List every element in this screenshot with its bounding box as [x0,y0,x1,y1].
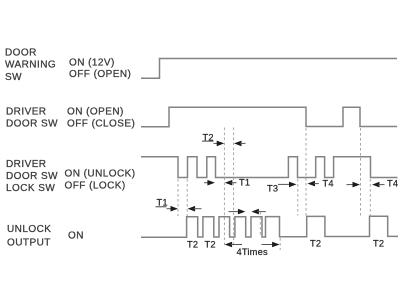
dashed guide line at x=187 [186,179,188,216]
dashed guide line at x=224.4 [223,128,225,248]
svg-text:ON (12V): ON (12V) [69,58,115,69]
row 2 label DRIVER DOOR SW [6,107,58,130]
svg-text:T4: T4 [387,179,398,189]
svg-text:DRIVER: DRIVER [6,159,46,170]
annotation T2 (top) label with underline [202,133,214,143]
annotation T1 (middle) right-pointing arrow [204,180,215,186]
svg-text:ON (UNLOCK): ON (UNLOCK) [65,169,136,180]
annotation T1 (middle) left-pointing arrow [225,180,237,186]
row 3 label DRIVER DOOR SW LOCK SW [6,159,58,194]
wire: UNLOCK OUTPUT waveform [141,216,398,237]
svg-text:OFF (LOCK): OFF (LOCK) [65,181,126,192]
svg-text:T1: T1 [239,178,250,188]
svg-text:UNLOCK: UNLOCK [7,224,51,235]
dashed guide line at x=260.3 [259,212,261,237]
dashed guide line at x=280.2 [279,238,281,250]
svg-text:DOOR SW: DOOR SW [6,171,58,182]
svg-text:T2: T2 [310,239,321,249]
svg-text:LOCK SW: LOCK SW [6,183,55,194]
svg-text:OFF (OPEN): OFF (OPEN) [69,69,131,80]
svg-text:T3: T3 [267,184,278,194]
annotation T2 (top) left-pointing arrow [234,141,246,147]
svg-text:T2: T2 [205,240,216,250]
dashed guide line at x=360.5 [360,128,362,216]
svg-text:T2: T2 [373,239,384,249]
annotation T3 right-pointing arrow [278,182,297,188]
dashed guide line at x=178 [177,179,179,216]
annotation T4 (right) left-pointing arrow [372,182,385,188]
wire: DOOR WARNING SW waveform [141,59,397,79]
svg-text:OUTPUT: OUTPUT [7,238,51,249]
annotation 4Times left-pointing arrow [225,242,242,248]
dashed guide line at x=233.6 [233,128,235,248]
svg-text:OFF (CLOSE): OFF (CLOSE) [67,119,135,130]
svg-text:DOOR: DOOR [5,48,37,59]
annotation 4Times right-pointing arrow [262,242,280,248]
annotation gap arrows above row 4 right-pointing arrow [229,209,246,215]
svg-text:ON: ON [68,231,84,242]
annotation T1 (left) left-pointing arrow [188,206,202,212]
svg-text:T1: T1 [157,198,168,208]
svg-text:4Times: 4Times [237,247,268,257]
svg-text:T4: T4 [323,179,334,189]
annotation gap arrows above row 4 left-pointing arrow [251,209,265,215]
annotation T4 (middle) left-pointing arrow [308,181,319,187]
svg-text:WARNING: WARNING [5,60,56,71]
annotation T4 (right) right-pointing arrow [347,182,361,188]
dashed guide line at x=370.3 [369,179,371,216]
row 1 label DOOR WARNING SW [5,48,56,84]
svg-text:ON (OPEN): ON (OPEN) [67,107,124,118]
svg-text:T2: T2 [187,240,198,250]
wire: DRIVER DOOR SW waveform [141,107,397,127]
annotation T2 (top) right-pointing arrow [214,141,225,147]
svg-text:DRIVER: DRIVER [6,107,46,118]
svg-text:DOOR SW: DOOR SW [6,119,58,130]
svg-text:SW: SW [5,72,22,83]
dashed guide line at x=306 [305,128,307,216]
row 4 label UNLOCK OUTPUT [7,224,51,249]
dashed guide line at x=297.8 [297,179,299,216]
wire: DRIVER DOOR SW LOCK SW waveform [141,157,398,178]
annotation T1 (left) label with underline [156,198,168,208]
annotation T1 (left) right-pointing arrow [167,206,179,212]
